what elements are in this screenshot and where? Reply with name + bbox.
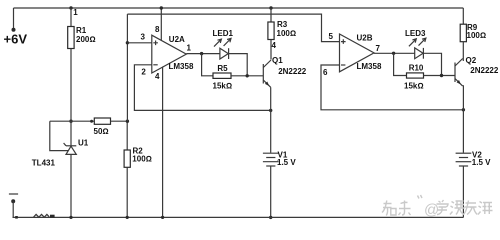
svg-text:R5: R5 bbox=[217, 64, 228, 73]
svg-text:1.5 V: 1.5 V bbox=[472, 158, 491, 167]
svg-text:Q2: Q2 bbox=[466, 56, 477, 65]
svg-text:2N2222: 2N2222 bbox=[278, 67, 307, 76]
resistor 50Ω (horizontal) bbox=[50, 118, 128, 136]
svg-text:+6V: +6V bbox=[4, 32, 28, 47]
svg-text:LED1: LED1 bbox=[213, 29, 234, 38]
junction dot at 50Ω / R2 / pin3 riser bbox=[126, 120, 129, 123]
svg-text:2N2222: 2N2222 bbox=[470, 66, 499, 75]
svg-text:3: 3 bbox=[141, 33, 146, 42]
svg-text:50Ω: 50Ω bbox=[94, 127, 109, 136]
battery V1 1.5V bbox=[263, 150, 296, 167]
wire LED3 cathode down to base node bbox=[423, 53, 441, 75]
watermark 知乎 @学海无涯 bbox=[382, 195, 493, 219]
+6V terminal dot bbox=[12, 28, 16, 32]
svg-text:R10: R10 bbox=[409, 63, 424, 72]
svg-text:LM358: LM358 bbox=[357, 62, 382, 71]
svg-text:TL431: TL431 bbox=[32, 158, 56, 167]
node 1 junction dot on top rail bbox=[69, 6, 72, 9]
transistor Q1 2N2222 bbox=[263, 56, 306, 87]
battery V2 1.5V bbox=[456, 150, 492, 167]
svg-text:U2B: U2B bbox=[357, 33, 373, 42]
wire Q2 base bbox=[424, 75, 456, 77]
svg-text:4: 4 bbox=[272, 41, 277, 50]
svg-text:5: 5 bbox=[329, 32, 334, 41]
junction dot pin4 line on rail bbox=[161, 216, 164, 219]
junction dot base node bbox=[246, 74, 249, 77]
resistor R2 100Ω bbox=[124, 121, 152, 217]
op-amp U2A LM358 bbox=[152, 35, 194, 73]
wire TL431 ref loop bbox=[50, 121, 68, 150]
LED1 bbox=[213, 29, 234, 59]
svg-text:7: 7 bbox=[376, 44, 381, 53]
wire pin3 riser up bbox=[126, 14, 128, 121]
svg-text:200Ω: 200Ω bbox=[76, 35, 96, 44]
junction dot feedback at battery V1 line bbox=[269, 109, 272, 112]
ground terminal left: dash bbox=[9, 193, 18, 195]
svg-text:U2A: U2A bbox=[169, 35, 185, 44]
ground terminal left: drop wire bbox=[12, 201, 14, 217]
resistor R1 200Ω bbox=[68, 8, 96, 121]
svg-text:100Ω: 100Ω bbox=[467, 31, 487, 40]
wire U2A pin2 feedback from battery node bbox=[134, 65, 270, 111]
wire +6V terminal drop bbox=[13, 8, 15, 29]
op-amp U2B LM358 bbox=[340, 33, 382, 72]
wire U2A pin3 stub bbox=[127, 42, 151, 44]
wire R5 branch down bbox=[202, 54, 213, 76]
svg-text:4: 4 bbox=[155, 72, 160, 81]
junction dot pin3 tee bbox=[126, 41, 129, 44]
wire Q1 base bbox=[231, 75, 263, 77]
transistor Q2 2N2222 bbox=[455, 56, 499, 86]
wire TL431 anode to ground rail bbox=[70, 154, 72, 217]
junction dot V1 on rail bbox=[269, 216, 272, 219]
wire top +6V rail bbox=[14, 7, 464, 9]
svg-text:LM358: LM358 bbox=[169, 62, 194, 71]
svg-text:R1: R1 bbox=[76, 26, 87, 35]
svg-text:1.5 V: 1.5 V bbox=[277, 158, 296, 167]
junction dot pin8 on rail bbox=[160, 6, 163, 9]
wire Q2 emitter to battery V2 bbox=[462, 86, 463, 153]
svg-text:2: 2 bbox=[141, 68, 146, 77]
svg-text:15kΩ: 15kΩ bbox=[404, 81, 424, 90]
wire from junction down to TL431 cathode bbox=[70, 121, 72, 146]
junction dot TL431 line on rail bbox=[69, 216, 72, 219]
junction dot feedback at battery V2 line bbox=[462, 108, 465, 111]
resistor R5 15kΩ bbox=[213, 64, 233, 91]
junction dot output / R10 branch bbox=[392, 52, 395, 55]
junction dot node at R1/50Ω cross bbox=[69, 120, 72, 123]
TL431 U1 shunt reference bbox=[32, 138, 89, 167]
junction dot base node Q2 bbox=[440, 74, 443, 77]
wire reference bus to U2B pin5 bbox=[127, 14, 339, 41]
rail squiggle mark bbox=[34, 214, 50, 217]
wire U2A pin8 to +6V rail bbox=[160, 8, 162, 41]
resistor R9 100Ω bbox=[460, 23, 486, 61]
svg-text:100Ω: 100Ω bbox=[132, 154, 152, 163]
junction dot R2 line on rail bbox=[126, 216, 129, 219]
svg-text:15kΩ: 15kΩ bbox=[213, 82, 233, 91]
wire U2A output pin1 bbox=[186, 53, 220, 55]
svg-text:1: 1 bbox=[73, 8, 78, 17]
junction dot R3 on top rail bbox=[269, 6, 272, 9]
svg-text:Q1: Q1 bbox=[272, 56, 283, 65]
LED3 bbox=[405, 29, 426, 59]
svg-text:LED3: LED3 bbox=[405, 29, 426, 38]
wire U2A pin4 to ground rail bbox=[162, 67, 164, 218]
svg-text:1: 1 bbox=[187, 43, 192, 52]
wire R10 branch down bbox=[394, 53, 407, 75]
rail nub mark bbox=[15, 216, 18, 219]
wire U2B pin6 feedback from battery V2 node bbox=[321, 65, 463, 110]
wire battery V1 to ground rail bbox=[270, 166, 272, 217]
resistor R10 15kΩ bbox=[404, 63, 424, 90]
ground terminal left: dot bbox=[11, 199, 15, 203]
svg-text:U1: U1 bbox=[78, 138, 89, 147]
svg-text:100Ω: 100Ω bbox=[277, 29, 297, 38]
junction dot R9 corner top rail bbox=[462, 8, 464, 24]
wire U2B output pin7 bbox=[374, 52, 415, 54]
wire Q1 emitter to battery V1 bbox=[270, 87, 272, 153]
junction dot output / R5 branch bbox=[200, 52, 203, 55]
wire battery V2 to ground rail corner bbox=[462, 166, 464, 217]
resistor R3 100Ω bbox=[268, 8, 296, 60]
rail squiggle blob bbox=[50, 215, 55, 218]
wire bottom ground rail bbox=[13, 216, 464, 218]
wire LED1 cathode down to base node bbox=[229, 54, 248, 76]
svg-text:8: 8 bbox=[155, 25, 160, 34]
svg-text:6: 6 bbox=[323, 68, 328, 77]
